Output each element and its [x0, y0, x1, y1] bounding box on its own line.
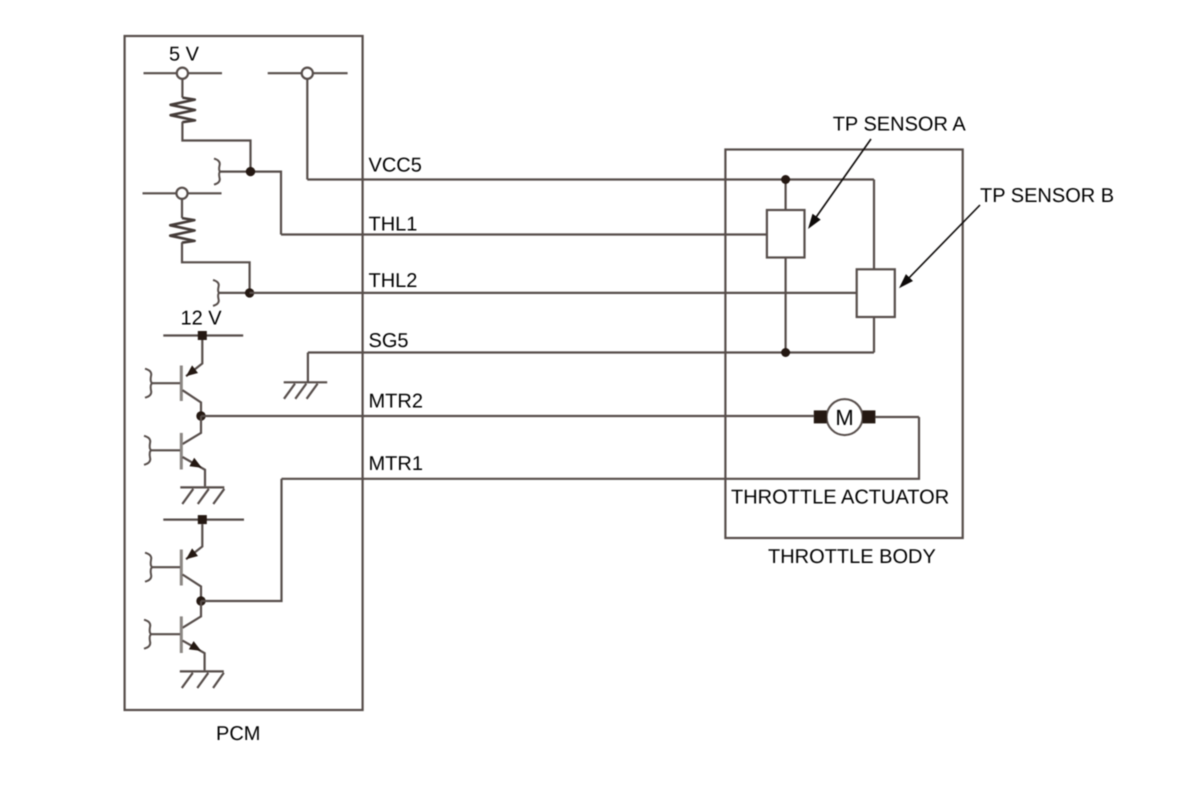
- wire T3 to R2: [181, 199, 183, 218]
- svg-text:THROTTLE ACTUATOR: THROTTLE ACTUATOR: [731, 487, 949, 509]
- connector C1: [214, 159, 220, 185]
- svg-text:MTR2: MTR2: [369, 391, 423, 413]
- wire VCC5: [307, 178, 874, 180]
- transistor Q1 emitter arrow: [186, 365, 198, 376]
- wire node N1 to THL1: [251, 172, 282, 235]
- 5V terminal T2 circle: [302, 68, 313, 79]
- wire THL1: [281, 233, 767, 235]
- svg-text:5 V: 5 V: [169, 44, 200, 66]
- 5V terminal T1 rail: [144, 72, 223, 74]
- transistor Q1 bar: [180, 366, 183, 402]
- node SG5 junction dot: [781, 348, 790, 357]
- wire S1 to Q1 emitter: [186, 340, 202, 376]
- transistor Q3 emitter arrow: [186, 548, 198, 559]
- transistor Q4 emitter arrow: [189, 641, 201, 651]
- THROTTLE BODY box: [725, 150, 962, 539]
- transistor Q4 emitter wire: [183, 641, 205, 671]
- wire sensor B to SG5: [873, 317, 875, 353]
- wire VCC5 sensor branch right: [873, 180, 875, 270]
- TP sensor B box: [857, 269, 895, 317]
- wire sensor A to SG5: [784, 258, 786, 353]
- 5V terminal T2 rail: [268, 72, 348, 74]
- wire SG5: [308, 351, 874, 353]
- transistor Q4 collector wire: [183, 601, 202, 628]
- TP SENSOR B arrow: [905, 205, 980, 282]
- transistor Q3 base wire: [152, 566, 180, 568]
- wire MTR1 riser: [201, 479, 282, 601]
- wire R2 to node N2: [182, 242, 250, 293]
- connector C5: [145, 553, 152, 582]
- PCM box: [125, 36, 363, 710]
- transistor Q1 collector wire: [183, 390, 202, 416]
- wire T2 down: [306, 79, 308, 180]
- transistor Q2 base wire: [151, 449, 180, 451]
- resistor R2: [170, 218, 194, 243]
- transistor Q3 collector wire: [183, 575, 202, 602]
- wire THL2: [250, 292, 857, 294]
- node MTR2 junction dot: [196, 411, 205, 420]
- svg-text:TP SENSOR A: TP SENSOR A: [833, 114, 967, 136]
- svg-text:SG5: SG5: [369, 330, 409, 352]
- transistor Q2 emitter wire: [183, 457, 206, 486]
- svg-text:VCC5: VCC5: [369, 155, 422, 177]
- resistor R1: [171, 98, 195, 123]
- 12V terminal square S2: [198, 515, 207, 524]
- ground G3: [284, 382, 328, 399]
- wire motor to MTR1 loop: [875, 416, 919, 418]
- transistor Q4 base wire: [151, 633, 180, 635]
- connector C2: [213, 280, 219, 306]
- transistor Q3 bar: [180, 550, 183, 586]
- svg-text:THROTTLE BODY: THROTTLE BODY: [768, 546, 936, 568]
- 5V terminal T3 rail: [143, 192, 222, 194]
- 12V rail 1: [163, 334, 243, 336]
- node N1 junction dot: [246, 167, 255, 176]
- motor left brush square: [814, 410, 827, 423]
- connector C4: [144, 436, 151, 465]
- svg-text:PCM: PCM: [216, 723, 260, 745]
- TP SENSOR A arrow: [812, 139, 871, 223]
- node N2 junction dot: [245, 288, 254, 297]
- connector C3: [145, 369, 152, 398]
- 5V terminal T1 circle: [177, 68, 188, 79]
- wire C2 to node N2: [219, 292, 250, 294]
- transistor Q2 collector wire: [183, 416, 202, 444]
- connector C6: [144, 620, 151, 649]
- wire SG5 to ground G3: [307, 353, 309, 383]
- wire VCC5 sensor branch left: [784, 180, 786, 211]
- wire S2 to Q3 emitter: [186, 524, 202, 559]
- node VCC5 junction dot: [781, 175, 790, 184]
- transistor Q2 emitter arrow: [189, 458, 201, 468]
- svg-text:MTR1: MTR1: [369, 453, 423, 475]
- motor M circle: [827, 399, 863, 435]
- 12V rail 2: [163, 518, 244, 520]
- svg-text:TP SENSOR B: TP SENSOR B: [980, 185, 1114, 207]
- ground G1: [180, 487, 224, 504]
- transistor Q2 bar: [180, 433, 183, 470]
- ground G2: [180, 671, 224, 688]
- transistor Q1 base wire: [152, 382, 180, 384]
- wire MTR1: [282, 417, 920, 479]
- node MTR1 junction dot: [196, 596, 205, 605]
- svg-text:THL2: THL2: [369, 270, 418, 292]
- transistor Q4 bar: [180, 616, 183, 653]
- wire R1 to node N1: [182, 122, 250, 172]
- svg-text:M: M: [835, 405, 853, 430]
- wire C1 to node N1: [220, 171, 251, 173]
- 12V terminal square S1: [198, 331, 207, 340]
- TP sensor A box: [767, 210, 805, 258]
- svg-text:12 V: 12 V: [181, 308, 223, 330]
- 5V terminal T3 circle: [176, 188, 187, 199]
- wire T1 to R1: [181, 79, 183, 98]
- wire MTR2: [201, 415, 814, 417]
- svg-text:THL1: THL1: [369, 214, 418, 236]
- motor right brush square: [863, 410, 876, 423]
